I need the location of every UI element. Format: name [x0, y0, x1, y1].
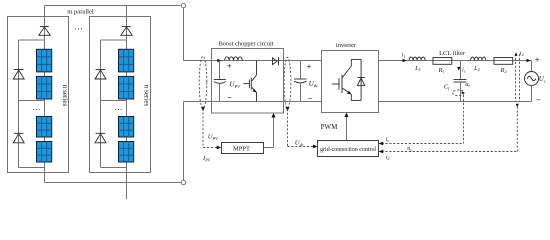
svg-text:inverter: inverter [336, 42, 357, 49]
svg-text:…: … [115, 103, 123, 112]
svg-text:−: − [227, 93, 232, 102]
svg-text:…: … [74, 21, 83, 31]
svg-text:m parallel: m parallel [67, 9, 94, 16]
svg-text:ic: ic [386, 137, 390, 143]
svg-text:n series: n series [142, 85, 150, 107]
svg-text:n series: n series [61, 85, 69, 107]
svg-text:−: − [308, 94, 313, 103]
svg-text:+: + [535, 56, 540, 65]
svg-text:−: − [536, 96, 541, 105]
svg-text:Boost chopper circuit: Boost chopper circuit [218, 41, 273, 48]
svg-text:i2: i2 [386, 155, 390, 161]
svg-text:us: us [407, 146, 412, 152]
svg-text:+: + [227, 62, 232, 71]
svg-text:…: … [33, 103, 41, 112]
svg-text:i2: i2 [520, 51, 524, 57]
svg-text:grid-connection control: grid-connection control [320, 147, 376, 153]
svg-text:PWM: PWM [321, 123, 339, 131]
svg-text:+: + [307, 62, 312, 71]
svg-text:LCL filter: LCL filter [439, 50, 466, 57]
svg-text:MPPT: MPPT [233, 145, 250, 152]
